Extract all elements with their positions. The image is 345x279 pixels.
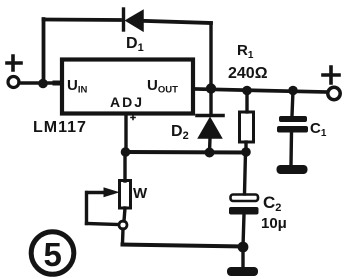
svg-text:5: 5: [44, 236, 62, 273]
svg-text:C1: C1: [310, 120, 327, 139]
svg-text:UOUT: UOUT: [147, 77, 178, 96]
svg-text:LM117: LM117: [33, 119, 87, 136]
svg-text:D2: D2: [171, 123, 189, 142]
svg-text:R1: R1: [237, 42, 254, 61]
svg-text:W: W: [133, 185, 148, 202]
svg-text:ADJ: ADJ: [110, 94, 144, 110]
svg-text:10μ: 10μ: [261, 215, 287, 232]
svg-text:240Ω: 240Ω: [228, 65, 268, 82]
svg-text:C2: C2: [263, 193, 281, 214]
svg-text:UIN: UIN: [67, 77, 87, 96]
svg-text:D1: D1: [126, 35, 144, 54]
